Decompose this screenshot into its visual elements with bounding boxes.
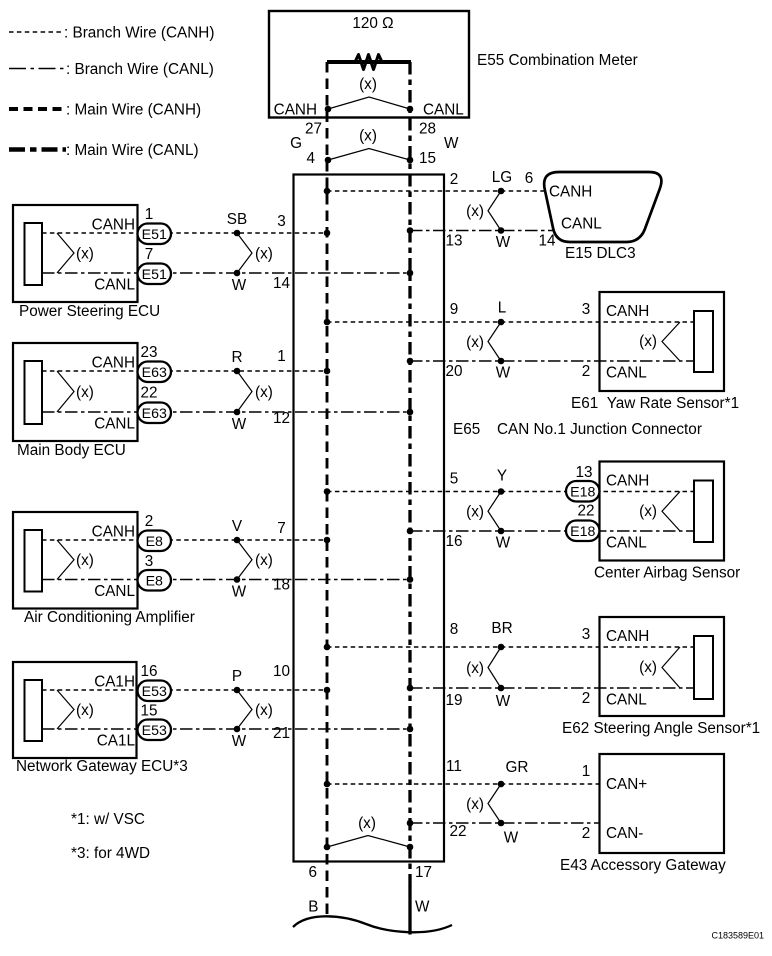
svg-text:6: 6 — [308, 864, 317, 881]
splice node Air Conditioning Amplifier CANL — [234, 576, 241, 583]
device box steering angle sensor — [600, 617, 725, 716]
svg-text:W: W — [496, 234, 511, 251]
connector E53 CANH oval — [138, 681, 172, 702]
splice chevron accessory gateway harness — [488, 784, 501, 823]
svg-text:: Branch Wire (CANL): : Branch Wire (CANL) — [66, 61, 214, 78]
junction node Power Steering ECU CANL on trunk — [407, 270, 414, 277]
junction node DLC3 CANH on trunk — [324, 188, 331, 195]
connector box E65 CAN No.1 Junction Connector — [294, 175, 445, 862]
svg-text:(x): (x) — [255, 384, 273, 401]
svg-text:3: 3 — [582, 301, 591, 318]
svg-text:(x): (x) — [255, 245, 273, 262]
svg-text:E8: E8 — [146, 534, 163, 550]
svg-text:15: 15 — [140, 703, 157, 720]
svg-text:CANH: CANH — [274, 102, 317, 119]
splice node yaw rate sensor CANH — [498, 319, 505, 326]
svg-text:CANL: CANL — [606, 535, 647, 552]
svg-text:W: W — [415, 899, 430, 916]
branch wire CAN+ accessory gateway from trunk — [327, 783, 599, 785]
svg-text:E55 Combination Meter: E55 Combination Meter — [477, 52, 638, 69]
svg-text:22: 22 — [449, 823, 466, 840]
splice chevron Power Steering ECU harness — [237, 233, 252, 273]
svg-text:*3: for 4WD: *3: for 4WD — [71, 845, 150, 862]
svg-text:13: 13 — [575, 464, 592, 481]
splice chevron inside yaw rate sensor — [662, 322, 680, 361]
svg-text:28: 28 — [419, 121, 436, 138]
svg-text:E63: E63 — [142, 406, 167, 422]
svg-text:16: 16 — [140, 663, 157, 680]
svg-text:(x): (x) — [76, 702, 94, 719]
splice chevron inside steering angle sensor — [662, 647, 680, 688]
splice node Network Gateway ECU*3 CANL — [234, 726, 241, 733]
svg-text:G: G — [290, 135, 302, 152]
svg-text:(x): (x) — [466, 203, 484, 220]
svg-text:V: V — [232, 518, 243, 535]
splice node Main Body ECU CANH — [234, 368, 241, 375]
main wire CANH trunk vertical — [326, 62, 329, 918]
svg-text:BR: BR — [491, 620, 512, 637]
svg-text:W: W — [232, 277, 247, 294]
splice node yaw rate sensor CANL — [498, 358, 505, 365]
junction node pin 4 on CANH trunk — [325, 157, 332, 164]
svg-text:4: 4 — [306, 150, 315, 167]
svg-text:22: 22 — [140, 385, 157, 402]
svg-text:20: 20 — [445, 363, 462, 380]
svg-text:E8: E8 — [146, 573, 163, 589]
junction node pin 6 on CANH trunk — [324, 844, 331, 851]
connector E51 CANH oval — [138, 224, 172, 245]
splice node Network Gateway ECU*3 CANH — [234, 687, 241, 694]
svg-text:W: W — [232, 416, 247, 433]
junction node accessory gateway CANH on trunk — [324, 781, 331, 788]
svg-text:7: 7 — [277, 520, 286, 537]
svg-text:E63: E63 — [142, 365, 167, 381]
splice chevron inside Power Steering ECU — [57, 233, 74, 273]
junction node CANH pin 27 inside E55 — [325, 106, 332, 113]
svg-text:(x): (x) — [466, 334, 484, 351]
connector E8 CANL oval — [138, 570, 172, 591]
svg-text:CANL: CANL — [423, 102, 464, 119]
connector E8 CANH oval — [138, 531, 172, 552]
splice chevron inside Network Gateway ECU*3 — [57, 690, 74, 729]
branch wire CANL Network Gateway ECU*3 to trunk — [42, 728, 410, 730]
branch wire CANH Network Gateway ECU*3 to trunk — [42, 689, 327, 691]
svg-text:C183589E01: C183589E01 — [711, 931, 764, 941]
device box yaw rate sensor — [600, 292, 725, 391]
junction node center airbag sensor CANH on trunk — [324, 488, 331, 495]
ECU box Air Conditioning Amplifier — [13, 512, 138, 609]
svg-text:(x): (x) — [359, 76, 377, 93]
svg-text:: Branch Wire (CANH): : Branch Wire (CANH) — [64, 25, 214, 42]
svg-text:E18: E18 — [570, 484, 595, 500]
svg-text:W: W — [232, 733, 247, 750]
svg-text:(x): (x) — [466, 796, 484, 813]
svg-text:(x): (x) — [76, 552, 94, 569]
svg-text:Air Conditioning Amplifier: Air Conditioning Amplifier — [24, 609, 195, 626]
splice chevron inside center airbag sensor — [662, 492, 680, 532]
svg-text:Network Gateway ECU*3: Network Gateway ECU*3 — [16, 758, 188, 775]
svg-text:: Main Wire (CANL): : Main Wire (CANL) — [66, 142, 199, 159]
svg-text:E18: E18 — [570, 524, 595, 540]
splice chevron above junction connector — [328, 149, 410, 161]
splice node steering angle sensor CANL — [498, 685, 505, 692]
branch wire CANL Air Conditioning Amplifier to trunk — [42, 579, 410, 581]
svg-text:2: 2 — [145, 513, 154, 530]
junction node accessory gateway CANL on trunk — [407, 820, 414, 827]
connector E18 CANL oval — [566, 521, 600, 542]
connector symbol inside steering angle sensor — [694, 636, 713, 699]
ECU box Network Gateway ECU*3 — [13, 662, 137, 758]
splice chevron inside E55 — [328, 97, 410, 109]
svg-text:6: 6 — [525, 170, 534, 187]
svg-text:(x): (x) — [358, 815, 376, 832]
svg-text:5: 5 — [450, 471, 459, 488]
junction node yaw rate sensor CANH on trunk — [324, 319, 331, 326]
branch wire CANL Main Body ECU to trunk — [42, 411, 410, 413]
junction node Air Conditioning Amplifier CANH on trunk — [324, 537, 331, 544]
svg-text:CANH: CANH — [606, 473, 649, 490]
svg-text:10: 10 — [273, 663, 290, 680]
svg-text:(x): (x) — [466, 504, 484, 521]
branch wire CANL yaw rate sensor from trunk — [410, 360, 694, 362]
svg-text:(x): (x) — [639, 333, 657, 350]
svg-text:: Main Wire (CANH): : Main Wire (CANH) — [66, 102, 201, 119]
svg-text:2: 2 — [582, 363, 591, 380]
svg-text:22: 22 — [577, 502, 594, 519]
svg-text:L: L — [498, 300, 507, 317]
svg-text:(x): (x) — [76, 245, 94, 262]
svg-text:LG: LG — [492, 169, 512, 186]
svg-text:W: W — [496, 535, 511, 552]
device shape E15 DLC3 — [544, 172, 661, 242]
junction node Network Gateway ECU*3 CANL on trunk — [407, 726, 414, 733]
junction node Air Conditioning Amplifier CANL on trunk — [407, 576, 414, 583]
svg-text:27: 27 — [305, 121, 322, 138]
ECU box E55 Combination Meter — [269, 11, 469, 118]
svg-text:(x): (x) — [255, 702, 273, 719]
branch wire CANH yaw rate sensor from trunk — [327, 321, 694, 323]
resistor 120 ohm — [327, 60, 411, 64]
svg-text:R: R — [231, 349, 242, 366]
connector symbol inside Main Body ECU — [25, 361, 43, 424]
svg-text:(x): (x) — [76, 384, 94, 401]
branch wire CANH Air Conditioning Amplifier to trunk — [42, 539, 327, 541]
svg-text:(x): (x) — [466, 660, 484, 677]
svg-text:2: 2 — [582, 825, 591, 842]
svg-text:14: 14 — [538, 233, 556, 250]
svg-text:E43 Accessory Gateway: E43 Accessory Gateway — [560, 857, 726, 874]
svg-text:15: 15 — [419, 150, 436, 167]
svg-text:(x): (x) — [639, 503, 657, 520]
connector symbol inside Power Steering ECU — [25, 223, 43, 285]
branch wire CANH steering angle sensor from trunk — [327, 646, 694, 648]
main wire CANL trunk solid tail — [408, 886, 411, 935]
splice node DLC3 CANL — [498, 227, 505, 234]
svg-text:W: W — [496, 365, 511, 382]
junction node Network Gateway ECU*3 CANH on trunk — [324, 687, 331, 694]
svg-text:11: 11 — [446, 758, 462, 775]
splice chevron inside Main Body ECU — [57, 371, 74, 412]
svg-text:CANL: CANL — [561, 216, 602, 233]
ECU box Power Steering ECU — [13, 205, 138, 302]
svg-text:B: B — [308, 899, 318, 916]
splice node center airbag sensor CANH — [498, 488, 505, 495]
svg-text:W: W — [444, 135, 459, 152]
branch wire CAN- accessory gateway from trunk — [410, 822, 599, 824]
svg-text:2: 2 — [450, 171, 459, 188]
svg-text:Center Airbag Sensor: Center Airbag Sensor — [594, 565, 740, 582]
svg-text:120 Ω: 120 Ω — [352, 15, 393, 32]
svg-text:Power Steering ECU: Power Steering ECU — [19, 303, 160, 320]
svg-text:SB: SB — [227, 211, 247, 228]
junction node Main Body ECU CANH on trunk — [324, 368, 331, 375]
svg-text:W: W — [504, 830, 519, 847]
harness break wave line — [293, 916, 452, 932]
svg-text:E15 DLC3: E15 DLC3 — [565, 245, 636, 262]
svg-text:3: 3 — [145, 553, 154, 570]
junction node steering angle sensor CANL on trunk — [407, 685, 414, 692]
connector symbol inside Network Gateway ECU*3 — [25, 680, 43, 741]
branch wire CANH center airbag sensor from trunk — [327, 491, 694, 493]
junction node Power Steering ECU CANH on trunk — [324, 230, 331, 237]
legend main wire CANH sample line — [9, 107, 64, 111]
svg-text:E53: E53 — [142, 723, 167, 739]
branch wire CANL DLC3 from trunk — [410, 230, 554, 232]
splice node center airbag sensor CANL — [498, 528, 505, 535]
svg-text:14: 14 — [273, 275, 291, 292]
svg-text:W: W — [232, 584, 247, 601]
junction node pin 15 on CANL trunk — [407, 157, 414, 164]
device box accessory gateway — [600, 754, 725, 853]
svg-text:8: 8 — [450, 621, 459, 638]
legend branch wire CANH sample line — [9, 31, 64, 33]
svg-text:(x): (x) — [359, 128, 377, 145]
svg-text:7: 7 — [145, 246, 154, 263]
svg-text:17: 17 — [415, 864, 432, 881]
splice node Air Conditioning Amplifier CANH — [234, 537, 241, 544]
svg-text:E53: E53 — [142, 684, 167, 700]
connector symbol inside center airbag sensor — [694, 481, 713, 543]
junction node CANL pin 28 inside E55 — [407, 106, 414, 113]
connector symbol inside Air Conditioning Amplifier — [25, 530, 43, 592]
svg-text:13: 13 — [445, 233, 462, 250]
svg-text:1: 1 — [145, 206, 154, 223]
svg-text:E51: E51 — [142, 267, 167, 283]
svg-text:P: P — [232, 668, 242, 685]
svg-text:2: 2 — [582, 690, 591, 707]
svg-text:CANH: CANH — [92, 217, 135, 234]
svg-text:12: 12 — [273, 410, 290, 427]
connector E53 CANL oval — [138, 720, 172, 741]
svg-text:23: 23 — [140, 344, 157, 361]
connector E18 CANH oval — [566, 481, 600, 502]
svg-text:CANH: CANH — [92, 355, 135, 372]
junction node pin 17 on CANL trunk — [407, 844, 414, 851]
splice node Power Steering ECU CANH — [234, 230, 241, 237]
svg-text:CANL: CANL — [94, 416, 135, 433]
branch wire CANH Main Body ECU to trunk — [42, 370, 327, 372]
svg-text:W: W — [496, 693, 511, 710]
svg-text:CAN+: CAN+ — [606, 776, 647, 793]
svg-text:(x): (x) — [255, 552, 273, 569]
svg-text:9: 9 — [450, 301, 459, 318]
splice chevron bottom of junction connector — [327, 836, 410, 848]
svg-text:Main Body ECU: Main Body ECU — [17, 442, 126, 459]
svg-text:CANL: CANL — [606, 692, 647, 709]
connector E51 CANL oval — [138, 264, 172, 285]
splice chevron steering angle sensor harness — [488, 647, 501, 688]
svg-text:CANL: CANL — [606, 365, 647, 382]
splice node accessory gateway CANH — [498, 781, 505, 788]
branch wire CANH Power Steering ECU to trunk — [42, 232, 327, 234]
svg-text:CANL: CANL — [94, 583, 135, 600]
svg-text:*1: w/ VSC: *1: w/ VSC — [71, 811, 145, 828]
svg-text:E65: E65 — [453, 421, 480, 438]
splice chevron center airbag sensor harness — [488, 492, 501, 532]
splice node Main Body ECU CANL — [234, 409, 241, 416]
splice chevron Air Conditioning Amplifier harness — [237, 540, 252, 580]
svg-text:3: 3 — [582, 626, 591, 643]
junction node Main Body ECU CANL on trunk — [407, 409, 414, 416]
svg-text:1: 1 — [582, 763, 591, 780]
svg-text:(x): (x) — [639, 659, 657, 676]
svg-text:CANL: CANL — [94, 277, 135, 294]
device box center airbag sensor — [600, 462, 725, 561]
connector symbol inside yaw rate sensor — [694, 311, 713, 372]
svg-text:CANH: CANH — [606, 303, 649, 320]
splice node steering angle sensor CANH — [498, 644, 505, 651]
splice chevron Main Body ECU harness — [237, 371, 252, 412]
splice node Power Steering ECU CANL — [234, 270, 241, 277]
svg-text:E62 Steering Angle Sensor*1: E62 Steering Angle Sensor*1 — [562, 720, 760, 737]
splice node accessory gateway CANL — [498, 820, 505, 827]
branch wire CANL Power Steering ECU to trunk — [42, 272, 410, 274]
svg-text:E61 Yaw Rate Sensor*1: E61 Yaw Rate Sensor*1 — [571, 395, 739, 412]
svg-text:21: 21 — [273, 725, 290, 742]
svg-text:3: 3 — [277, 213, 286, 230]
legend branch wire CANL sample line — [9, 68, 66, 70]
branch wire CANL center airbag sensor from trunk — [410, 530, 694, 532]
branch wire CANL steering angle sensor from trunk — [410, 687, 694, 689]
svg-text:CA1L: CA1L — [97, 733, 135, 750]
junction node steering angle sensor CANH on trunk — [324, 644, 331, 651]
svg-text:GR: GR — [506, 759, 529, 776]
svg-text:19: 19 — [445, 692, 462, 709]
ECU box Main Body ECU — [13, 343, 138, 441]
svg-text:CAN-: CAN- — [606, 825, 643, 842]
junction node DLC3 CANL on trunk — [407, 227, 414, 234]
junction node yaw rate sensor CANL on trunk — [407, 358, 414, 365]
legend main wire CANL sample line — [9, 147, 66, 152]
main wire CANL trunk vertical — [408, 62, 411, 888]
svg-text:E51: E51 — [142, 227, 167, 243]
splice node DLC3 CANH — [498, 188, 505, 195]
svg-text:18: 18 — [273, 577, 290, 594]
svg-text:CA1H: CA1H — [94, 674, 135, 691]
svg-text:CAN No.1 Junction Connector: CAN No.1 Junction Connector — [497, 421, 702, 438]
branch wire CANH DLC3 from trunk — [327, 190, 546, 192]
svg-text:Y: Y — [497, 468, 507, 485]
svg-text:CANH: CANH — [549, 183, 592, 200]
connector E63 CANH oval — [138, 362, 172, 383]
svg-text:1: 1 — [277, 348, 286, 365]
junction node center airbag sensor CANL on trunk — [407, 528, 414, 535]
svg-text:CANH: CANH — [92, 524, 135, 541]
splice chevron Network Gateway ECU*3 harness — [237, 690, 252, 729]
connector E63 CANL oval — [138, 403, 172, 424]
splice chevron inside Air Conditioning Amplifier — [57, 540, 74, 580]
svg-text:16: 16 — [445, 533, 462, 550]
splice chevron yaw rate sensor harness — [488, 322, 501, 361]
splice chevron DLC3 harness — [488, 191, 501, 231]
svg-text:CANH: CANH — [606, 628, 649, 645]
